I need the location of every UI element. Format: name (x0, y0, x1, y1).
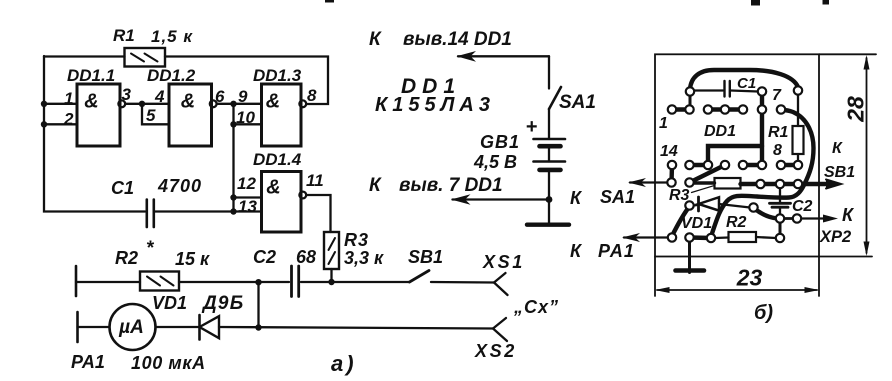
svg-text:SA1: SA1 (559, 92, 596, 113)
svg-text:DD1: DD1 (704, 123, 736, 140)
svg-text:68: 68 (296, 247, 316, 267)
svg-text:4: 4 (154, 87, 165, 106)
svg-text:VD1: VD1 (152, 293, 187, 313)
svg-text:б): б) (754, 302, 773, 324)
svg-text:С1: С1 (111, 178, 134, 198)
svg-text:&: & (84, 91, 98, 113)
svg-text:DD1.2: DD1.2 (147, 66, 196, 85)
svg-text:GB1: GB1 (480, 132, 520, 152)
svg-text:14: 14 (660, 143, 678, 160)
svg-text:С2: С2 (253, 247, 276, 267)
svg-text:&: & (266, 177, 280, 199)
svg-text:3: 3 (122, 85, 132, 104)
svg-text:„Сх”: „Сх” (513, 297, 559, 317)
svg-text:23: 23 (736, 265, 763, 291)
svg-text:13: 13 (238, 197, 257, 216)
svg-text:R2: R2 (726, 214, 747, 231)
svg-text:28: 28 (843, 96, 869, 123)
svg-text:R1: R1 (113, 26, 135, 45)
svg-text:1,5 к: 1,5 к (151, 27, 193, 46)
svg-text:К: К (832, 140, 843, 157)
svg-text:11: 11 (306, 171, 324, 190)
svg-text:R3: R3 (344, 230, 369, 250)
svg-text:XS1: XS1 (482, 252, 525, 272)
svg-text:6: 6 (215, 87, 225, 106)
svg-text:7: 7 (772, 87, 782, 104)
svg-text:SB1: SB1 (824, 164, 855, 181)
svg-text:SB1: SB1 (408, 247, 443, 267)
svg-text:РА1: РА1 (71, 352, 105, 372)
svg-text:VD1: VD1 (681, 215, 712, 232)
svg-text:8: 8 (307, 86, 317, 105)
svg-text:XS2: XS2 (474, 341, 517, 361)
svg-text:*: * (146, 238, 155, 259)
svg-text:5: 5 (146, 106, 156, 125)
svg-text:2: 2 (63, 110, 74, 129)
svg-text:К: К (842, 205, 855, 225)
svg-text:9: 9 (238, 87, 248, 106)
svg-text:Д9Б: Д9Б (201, 293, 244, 314)
svg-text:&: & (266, 91, 280, 113)
svg-text:10: 10 (236, 108, 255, 127)
svg-text:4,5 В: 4,5 В (473, 152, 517, 172)
svg-text:выв.14 DD1: выв.14 DD1 (403, 29, 512, 50)
svg-text:µА: µА (118, 317, 144, 338)
svg-text:&: & (181, 91, 195, 113)
svg-text:3,3 к: 3,3 к (344, 248, 384, 268)
svg-text:1: 1 (64, 89, 73, 108)
svg-text:100 мкА: 100 мкА (131, 353, 206, 373)
svg-text:SA1: SA1 (600, 187, 635, 207)
svg-text:15 к: 15 к (175, 249, 210, 269)
svg-text:DD1.1: DD1.1 (67, 66, 115, 85)
svg-text:К: К (369, 175, 382, 196)
svg-text:R3: R3 (669, 187, 690, 204)
svg-text:1: 1 (659, 115, 668, 132)
svg-text:К: К (369, 29, 382, 50)
svg-text:К: К (570, 241, 583, 261)
svg-text:К155ЛА3: К155ЛА3 (375, 94, 495, 116)
svg-text:ХР2: ХР2 (819, 228, 851, 246)
svg-text:8: 8 (773, 142, 782, 159)
svg-text:С1: С1 (737, 75, 756, 92)
svg-text:К: К (570, 188, 583, 208)
svg-text:РА1: РА1 (598, 241, 635, 261)
svg-text:R2: R2 (115, 248, 138, 268)
svg-text:DD1.3: DD1.3 (253, 66, 302, 85)
svg-text:4700: 4700 (157, 176, 202, 196)
svg-text:12: 12 (237, 174, 256, 193)
svg-text:R1: R1 (768, 124, 789, 141)
svg-text:выв. 7 DD1: выв. 7 DD1 (399, 175, 503, 196)
svg-text:а): а) (331, 351, 357, 376)
svg-text:+: + (526, 116, 538, 138)
svg-text:С2: С2 (792, 198, 813, 215)
svg-text:DD1.4: DD1.4 (253, 150, 302, 169)
